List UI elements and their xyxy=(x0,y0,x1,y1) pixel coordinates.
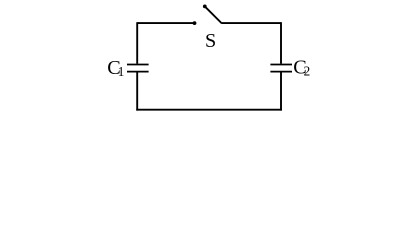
switch S left contact dot xyxy=(193,21,197,25)
wire: left vertical upper (C1 top lead) xyxy=(136,22,138,64)
svg-text:S: S xyxy=(205,30,216,52)
switch S lever (open blade) xyxy=(205,6,222,23)
capacitor C1 top plate xyxy=(127,64,149,66)
wire: bottom segment xyxy=(136,109,282,111)
capacitor C2 top plate xyxy=(270,64,292,66)
wire: right vertical lower (C2 bottom lead) xyxy=(280,72,282,110)
wire: top-left segment from corner to switch contact xyxy=(137,22,194,24)
switch S pivot dot (blade end) xyxy=(203,5,207,9)
wire: right vertical upper (C2 top lead) xyxy=(280,22,282,64)
capacitor C2 bottom plate xyxy=(270,71,292,73)
wire: top-right segment from switch lever foot to corner xyxy=(222,22,281,24)
svg-text:C2: C2 xyxy=(293,56,310,78)
wire: left vertical lower (C1 bottom lead) xyxy=(136,72,138,110)
capacitor C1 bottom plate xyxy=(127,71,149,73)
svg-text:C1: C1 xyxy=(107,57,124,79)
